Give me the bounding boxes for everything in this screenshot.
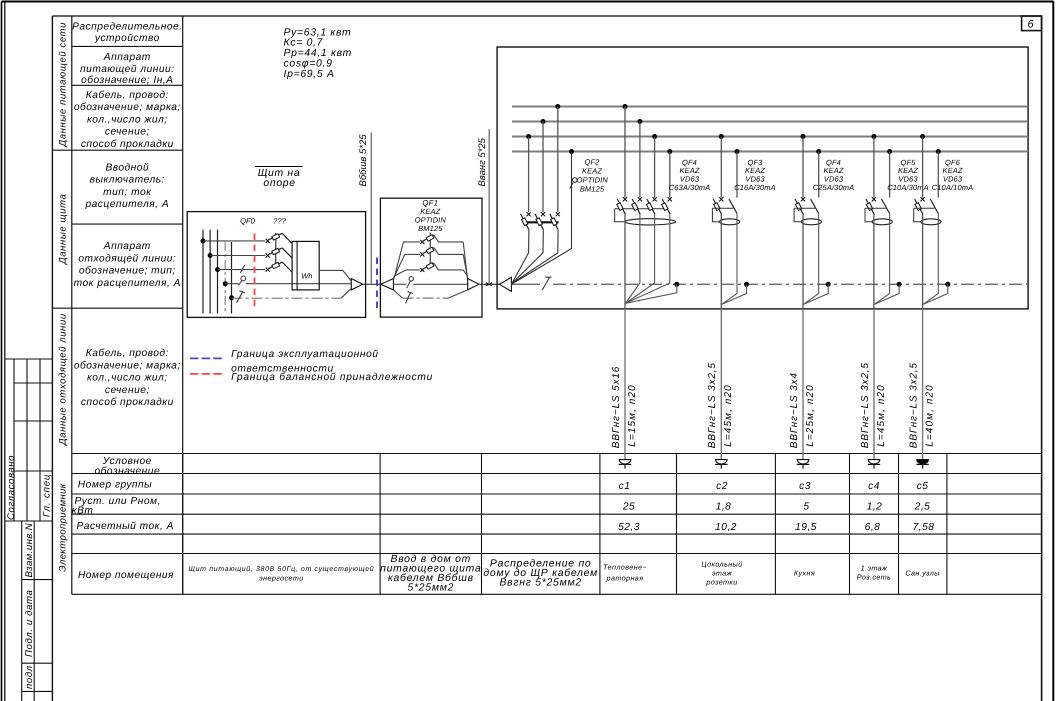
RCCB QF4 pole L1 xyxy=(617,197,627,214)
cell: Кухня xyxy=(794,569,815,578)
legend: balance boundary (red) xyxy=(190,372,433,383)
cable label c2 line 1 xyxy=(707,362,718,448)
svg-text:BM125: BM125 xyxy=(418,224,443,233)
svg-text:Номер группы: Номер группы xyxy=(78,480,152,491)
svg-text:кВт: кВт xyxy=(72,505,94,516)
svg-text:Кс= 0,7: Кс= 0,7 xyxy=(284,38,324,49)
incoming feeder wire L1 xyxy=(202,230,204,314)
junction dot N takeoff c2 xyxy=(744,282,749,287)
svg-text:1,2: 1,2 xyxy=(867,502,883,513)
RCCB QF4 linkage xyxy=(615,208,664,210)
cable Ввгнг 5*25 riser xyxy=(488,129,490,284)
svg-text:Вводной: Вводной xyxy=(105,163,149,174)
svg-text:C10A/10mA: C10A/10mA xyxy=(932,183,974,192)
svg-text:L=45м, п20: L=45м, п20 xyxy=(723,384,734,447)
RCCB QF6 differential transformer xyxy=(921,219,941,225)
RCCB QF4 pole 2 return xyxy=(626,214,640,303)
svg-text:сечение;: сечение; xyxy=(105,127,150,138)
svg-text:6: 6 xyxy=(1027,19,1034,31)
RCCB QF4 neutral pole blade xyxy=(811,199,819,214)
bus L2 xyxy=(512,121,1028,123)
row label: Аппарат питающей линии xyxy=(80,52,174,86)
socket symbol c3 xyxy=(797,460,809,469)
incoming feeder wire L2 xyxy=(209,230,211,314)
row label: Расчетный ток, А xyxy=(77,521,174,532)
red balance boundary dashed line xyxy=(254,234,256,310)
QF0 pole-mounted board box xyxy=(187,212,365,318)
svg-text:сечение;: сечение; xyxy=(105,385,150,396)
cable label c3 line 2 xyxy=(805,384,816,447)
junction dot L1 xyxy=(201,238,206,243)
socket symbol c5 xyxy=(916,460,928,469)
RCCB QF6 neutral pole blade xyxy=(930,199,938,214)
RCCB QF5 outgoing phase wire xyxy=(873,215,875,309)
section label Данные щита xyxy=(58,194,69,265)
RCCB QF3 test loop xyxy=(712,208,719,222)
disconnect blade on PE xyxy=(237,291,245,303)
cable label c5 line 2 xyxy=(924,384,935,447)
svg-text:5*25мм2: 5*25мм2 xyxy=(407,583,454,594)
cable label c1 line 1 xyxy=(611,366,622,448)
breaker QF2 linkage bar xyxy=(523,221,559,223)
junction dot L3 xyxy=(215,267,220,272)
svg-text:опоре: опоре xyxy=(263,178,295,189)
junction dot N takeoff c4 xyxy=(897,282,902,287)
bus L3 xyxy=(512,136,1028,138)
switch on N wire xyxy=(238,276,245,286)
RCCB QF5 neutral drop xyxy=(887,149,892,198)
junction dot N xyxy=(223,281,228,286)
cell: Цокольный этаж розетки xyxy=(701,560,742,587)
cable label Вббшв 5*25 xyxy=(358,134,369,187)
svg-text:этаж: этаж xyxy=(712,569,733,578)
values: group numbers c1-c5 xyxy=(619,481,929,492)
cable connector (left) of QF1 xyxy=(381,279,394,290)
wire PE rise to connector xyxy=(341,289,351,299)
svg-text:устройство: устройство xyxy=(94,33,160,44)
QF2 neutral drop xyxy=(512,149,574,284)
label QF0 xyxy=(240,217,256,226)
QF1 neutral wire xyxy=(393,283,406,285)
label QF4 KEAZ VD63 C63A/30mA xyxy=(669,158,711,192)
svg-text:Ру=63,1 квт: Ру=63,1 квт xyxy=(284,27,352,38)
RCCB QF4 pole 4 return xyxy=(626,214,670,303)
RCCB QF4 pole L3 xyxy=(646,197,656,214)
svg-text:кол.,число жил;: кол.,число жил; xyxy=(87,373,168,384)
RCCB QF4 test loop xyxy=(615,209,625,222)
svg-text:ток расцепителя, А: ток расцепителя, А xyxy=(74,278,181,289)
row label: Номер группы xyxy=(78,480,152,491)
wire N takeoff c2 xyxy=(722,284,747,304)
RCCB QF4 group drops xyxy=(623,104,673,198)
svg-text:QF0: QF0 xyxy=(240,217,256,226)
wire meter output xyxy=(319,270,351,281)
RCCB QF3 outgoing phase wire xyxy=(720,215,722,309)
svg-text:ВВГнг−LS 3х2,5: ВВГнг−LS 3х2,5 xyxy=(860,362,871,448)
svg-text:Согласовано: Согласовано xyxy=(6,455,17,520)
socket symbol c4 xyxy=(868,460,880,469)
RCCB QF4 pole N xyxy=(662,197,672,214)
svg-text:OPTIDIN: OPTIDIN xyxy=(577,176,609,185)
svg-text:19,5: 19,5 xyxy=(795,522,817,533)
svg-text:отходящей линии:: отходящей линии: xyxy=(78,253,176,264)
svg-text:Вванг 5*25: Вванг 5*25 xyxy=(477,137,488,186)
QF1 PE blade xyxy=(406,292,413,304)
wire QF1 to board xyxy=(479,283,500,285)
svg-text:7,58: 7,58 xyxy=(913,522,935,533)
svg-text:Взам.инв.N: Взам.инв.N xyxy=(24,523,35,578)
svg-text:C63A/30mA: C63A/30mA xyxy=(669,183,711,192)
svg-text:Распределительное.: Распределительное. xyxy=(72,21,182,32)
svg-text:Данные отходящей линии: Данные отходящей линии xyxy=(58,313,69,446)
socket symbol c2 xyxy=(715,460,727,469)
breaker QF1 pole 3 xyxy=(393,263,467,277)
legend: operational boundary (blue) xyxy=(190,349,379,374)
box Подл. и дата xyxy=(22,580,53,664)
label Согласовано xyxy=(6,455,17,520)
wire N takeoff c1 xyxy=(626,284,677,303)
cell: 1 этаж Роз сеть xyxy=(857,564,891,582)
RCCB QF4 neutral return xyxy=(804,214,819,305)
svg-text:кол.,число жил;: кол.,число жил; xyxy=(87,114,168,125)
svg-text:Wh: Wh xyxy=(301,272,312,281)
box подл xyxy=(22,663,53,701)
QF1 neutral wire 2 xyxy=(414,283,468,285)
main N/PE line xyxy=(511,283,1028,285)
svg-text:Данные питающей сети: Данные питающей сети xyxy=(58,22,69,148)
breaker QF1 pole 1 xyxy=(393,235,467,281)
socket symbol c1 xyxy=(619,460,631,469)
svg-text:Роз.сеть: Роз.сеть xyxy=(857,573,891,582)
svg-text:обозначение; марка;: обозначение; марка; xyxy=(74,360,181,371)
QF1 neutral switch xyxy=(407,277,414,288)
RCCB QF6 linkage xyxy=(914,207,935,209)
svg-text:расцепителя, А: расцепителя, А xyxy=(84,199,169,210)
svg-text:6,8: 6,8 xyxy=(865,522,881,533)
svg-text:выключатель:: выключатель: xyxy=(90,175,165,186)
row label: Руст. или Рном, кВт xyxy=(72,496,161,516)
junction dot N takeoff c3 xyxy=(826,282,831,287)
wire N takeoff c5 xyxy=(923,284,948,304)
svg-text:Ввгнг 5*25мм2: Ввгнг 5*25мм2 xyxy=(500,578,582,589)
svg-text:Номер помещения: Номер помещения xyxy=(78,570,174,581)
section label Электроприемник xyxy=(58,483,69,572)
RCCB QF6 phase pole xyxy=(915,197,925,214)
svg-text:обозначение; марка;: обозначение; марка; xyxy=(74,102,181,113)
distribution board box xyxy=(497,47,1028,309)
bottom table grid xyxy=(72,454,1042,595)
svg-text:Сан.узлы: Сан.узлы xyxy=(905,569,940,578)
svg-text:способ прокладки: способ прокладки xyxy=(81,139,174,150)
svg-text:ВВГнг−LS 3х2,5: ВВГнг−LS 3х2,5 xyxy=(707,362,718,448)
svg-text:25: 25 xyxy=(622,502,635,513)
row label: Условное обозначение xyxy=(94,456,160,477)
RCCB QF3 differential transformer xyxy=(719,219,739,225)
svg-text:L=45м, п20: L=45м, п20 xyxy=(876,384,887,447)
RCCB QF6 neutral return xyxy=(923,214,938,305)
outgoing cable wire c4 xyxy=(873,309,875,460)
RCCB QF4 neutral drop xyxy=(816,149,821,198)
svg-text:тип; ток: тип; ток xyxy=(103,187,152,198)
box Взам.инв.N xyxy=(22,521,53,580)
svg-text:обозначение: обозначение xyxy=(94,466,160,477)
RCCB QF5 differential transformer xyxy=(872,219,892,225)
RCCB QF5 phase pole xyxy=(866,197,876,214)
svg-text:Расчетный ток, А: Расчетный ток, А xyxy=(77,521,174,532)
svg-text:c3: c3 xyxy=(799,481,811,492)
load summary text xyxy=(284,27,352,80)
disconnect slash on L3 xyxy=(240,265,244,273)
svg-text:ВВГнг−LS 3х2,5: ВВГнг−LS 3х2,5 xyxy=(908,362,919,448)
svg-text:L=15м, п20: L=15м, п20 xyxy=(627,384,638,447)
breaker QF2 pole 3 xyxy=(512,212,560,284)
svg-text:QF2: QF2 xyxy=(585,158,601,167)
RCCB QF5 neutral pole blade xyxy=(882,199,890,214)
row label: Кабель, провод (отходящей) xyxy=(74,348,181,408)
cable label c3 line 1 xyxy=(789,372,800,448)
row label: Распределительное устройство xyxy=(72,21,182,44)
cell: Распределение по дому xyxy=(483,559,598,589)
svg-text:Гл. спец: Гл. спец xyxy=(42,474,53,517)
RCCB QF3 linkage xyxy=(712,207,733,209)
cell: Сан.узлы xyxy=(905,569,940,578)
row label: Номер помещения xyxy=(78,570,174,581)
breaker QF1 pole 2 xyxy=(393,247,467,278)
svg-text:Аппарат: Аппарат xyxy=(103,52,151,63)
junction dot PE xyxy=(229,295,234,300)
cable label c2 line 2 xyxy=(723,384,734,447)
breaker QF2 pole 1 xyxy=(512,212,531,284)
RCCB QF6 outgoing phase wire xyxy=(922,215,924,309)
label QF5 KEAZ VD63 C10A/30mA xyxy=(887,158,929,192)
breaker QF0 linkage xyxy=(275,233,277,266)
svg-text:L=25м, п20: L=25м, п20 xyxy=(805,384,816,447)
junction dot N takeoff c5 xyxy=(945,282,950,287)
svg-text:Данные щита: Данные щита xyxy=(58,194,69,265)
svg-text:1 этаж: 1 этаж xyxy=(861,564,888,573)
cable connector (right) of QF1 xyxy=(468,279,479,290)
incoming feeder wire N xyxy=(231,242,233,314)
svg-text:c2: c2 xyxy=(716,481,728,492)
svg-text:Подл. и дата: Подл. и дата xyxy=(24,590,35,657)
svg-text:Аппарат: Аппарат xyxy=(103,241,151,252)
cell: Ввод в дом xyxy=(380,554,481,594)
values: installed power kW xyxy=(622,502,931,513)
RCCB QF5 linkage xyxy=(865,207,886,209)
svg-text:c4: c4 xyxy=(868,481,880,492)
svg-text:KEAZ: KEAZ xyxy=(582,167,602,176)
svg-text:Кабель, провод:: Кабель, провод: xyxy=(86,348,169,359)
label Гл. спец xyxy=(42,474,53,517)
svg-text:Электроприемник: Электроприемник xyxy=(58,483,69,572)
RCCB QF4 pole 3 return xyxy=(626,214,655,303)
wire QF0 to QF1 xyxy=(363,283,381,285)
wire L1 branch xyxy=(203,240,265,242)
svg-text:Кабель, провод:: Кабель, провод: xyxy=(86,90,169,101)
outgoing cable wire c3 xyxy=(802,309,804,460)
svg-text:L=40м, п20: L=40м, п20 xyxy=(924,384,935,447)
label QF2 KEAZ OPTIDIN BM125 xyxy=(570,158,609,194)
x joint at board input xyxy=(486,283,492,286)
svg-text:1,8: 1,8 xyxy=(716,502,732,513)
svg-text:Тепловене−: Тепловене− xyxy=(603,563,647,572)
outgoing cable wire c2 xyxy=(720,309,722,460)
RCCB QF4 outgoing phase wire xyxy=(624,214,626,309)
svg-text:Граница балансной принадлежн: Граница балансной принадлежности xyxy=(231,372,433,383)
wire N to meter region xyxy=(246,283,352,285)
breaker QF0 pole 3 xyxy=(266,262,293,272)
row label: Вводной выключатель xyxy=(84,163,169,211)
blue boundary dashed line 1 xyxy=(376,258,378,309)
svg-text:52,3: 52,3 xyxy=(618,522,640,533)
label QF4 KEAZ VD63 C25A/30mA xyxy=(813,158,855,192)
RCCB QF4 pole L2 xyxy=(632,197,642,214)
svg-text:c5: c5 xyxy=(917,481,929,492)
RCCB QF6 test loop xyxy=(914,208,921,222)
svg-text:5: 5 xyxy=(803,502,809,513)
row label: Кабель, провод (питающей) xyxy=(74,90,181,150)
RCCB QF4 (c3) phase drop xyxy=(801,134,806,198)
cable label c4 line 2 xyxy=(876,384,887,447)
svg-text:способ прокладки: способ прокладки xyxy=(81,397,174,408)
sheet number box "6" xyxy=(1022,16,1042,31)
RCCB QF3 phase pole xyxy=(713,197,723,214)
RCCB QF4 linkage xyxy=(794,207,815,209)
RCCB QF5 (c4) phase drop xyxy=(871,134,876,198)
RCCB QF3 (c2) phase drop xyxy=(719,134,724,198)
svg-text:c1: c1 xyxy=(619,481,631,492)
RCCB QF6 neutral drop xyxy=(936,149,941,198)
svg-text:Граница эксплуатационной: Граница эксплуатационной xyxy=(231,349,379,360)
outgoing cable wire c5 xyxy=(922,309,924,460)
svg-text:C25A/30mA: C25A/30mA xyxy=(813,183,855,192)
row label: Аппарат отходящей линии xyxy=(74,241,181,289)
RCCB QF3 neutral return xyxy=(722,214,737,305)
cable connector board input xyxy=(500,277,512,291)
RCCB QF4 differential transformer xyxy=(625,219,676,225)
section label Данные питающей сети xyxy=(58,22,69,148)
RCCB QF4 outgoing phase wire xyxy=(802,215,804,309)
svg-text:обозначение; тип;: обозначение; тип; xyxy=(79,266,176,277)
breaker QF1 linkage xyxy=(429,233,431,267)
wire N takeoff c4 xyxy=(875,284,900,304)
incoming feeder wire L3 xyxy=(217,230,219,314)
svg-text:питающей линии:: питающей линии: xyxy=(80,64,174,75)
incoming feeder wire PEN (dash-dot) xyxy=(224,242,226,314)
RCCB QF3 neutral drop xyxy=(735,149,740,198)
wire N takeoff c3 xyxy=(804,284,829,304)
outgoing cable wire c1 xyxy=(624,309,626,460)
svg-text:Кухня: Кухня xyxy=(794,569,815,578)
RCCB QF6 (c5) phase drop xyxy=(920,134,925,198)
cell: Щит питающий xyxy=(188,565,374,583)
bus L1 xyxy=(512,106,1028,108)
breaker QF2 pole 2 xyxy=(512,212,545,284)
section label Данные отходящей линии xyxy=(58,313,69,446)
svg-text:подл: подл xyxy=(24,665,35,689)
cable label Ввгнг 5*25 xyxy=(477,137,488,186)
svg-text:обозначение; Iн,А: обозначение; Iн,А xyxy=(81,75,173,86)
breaker QF1 house input box xyxy=(380,198,482,317)
RCCB QF4 differential transformer xyxy=(801,219,821,225)
svg-text:BM125: BM125 xyxy=(580,185,605,194)
cable connector (right) of QF0 xyxy=(351,279,362,290)
meter Wh xyxy=(292,241,319,290)
wire N branch xyxy=(225,283,239,285)
RCCB QF3 neutral pole blade xyxy=(729,199,737,214)
svg-text:Iр=69,5 А: Iр=69,5 А xyxy=(284,69,335,80)
junction dot N takeoff c1 xyxy=(674,282,679,287)
svg-text:Рр=44,1 квт: Рр=44,1 квт xyxy=(284,48,352,59)
QF1 PE wire (dash-dot) xyxy=(393,290,467,298)
svg-text:ВВГнг−LS 5х16: ВВГнг−LS 5х16 xyxy=(611,366,622,448)
RCCB QF4 test loop xyxy=(794,208,801,222)
breaker QF0 pole 1 xyxy=(266,233,293,243)
wire L2 branch xyxy=(210,255,265,257)
svg-text:10,2: 10,2 xyxy=(715,522,737,533)
cable Вббшв 5*25 riser xyxy=(370,133,372,285)
svg-text:раторная: раторная xyxy=(606,574,644,583)
svg-text:ВВГнг−LS 3х4: ВВГнг−LS 3х4 xyxy=(789,372,800,448)
wire PE branch (dash-dot) xyxy=(232,297,342,299)
junction dot L2 xyxy=(208,253,213,258)
svg-text:Вббшв 5*25: Вббшв 5*25 xyxy=(358,134,369,187)
upper table grid xyxy=(52,16,182,594)
RCCB QF5 test loop xyxy=(865,208,872,222)
RCCB QF5 neutral return xyxy=(875,214,890,305)
svg-text:Щит питающий, 380В 50Гц, от су: Щит питающий, 380В 50Гц, от существующей xyxy=(188,565,374,573)
RCCB QF4 phase pole xyxy=(795,197,805,214)
svg-text:Цокольный: Цокольный xyxy=(701,560,742,569)
breaker QF0 pole 2 xyxy=(266,248,293,258)
svg-text:2,5: 2,5 xyxy=(914,502,931,513)
label Щит на опоре xyxy=(255,167,303,190)
ground tick on main line xyxy=(542,277,551,290)
svg-text:???: ??? xyxy=(273,217,286,226)
svg-text:энергосети: энергосети xyxy=(259,573,303,582)
svg-text:розетки: розетки xyxy=(705,578,737,587)
bus N xyxy=(512,151,1028,153)
cable label c5 line 1 xyxy=(908,362,919,448)
cable label c4 line 1 xyxy=(860,362,871,448)
wire L3 branch xyxy=(218,269,266,271)
label QF1 KEAZ OPTIDIN BM125 xyxy=(415,199,447,233)
label QF3 KEAZ VD63 C16A/30mA xyxy=(734,158,776,192)
title block side strip xyxy=(6,359,53,521)
label ??? xyxy=(273,217,286,226)
svg-text:C16A/30mA: C16A/30mA xyxy=(734,183,776,192)
cable label c1 line 2 xyxy=(627,384,638,447)
breaker QF2 group xyxy=(526,104,560,212)
label QF6 KEAZ VD63 C10A/10mA xyxy=(932,158,974,192)
cell: Тепловенераторная xyxy=(603,563,647,583)
values: design current A xyxy=(618,522,934,533)
svg-text:cosφ=0.9: cosφ=0.9 xyxy=(284,59,333,70)
